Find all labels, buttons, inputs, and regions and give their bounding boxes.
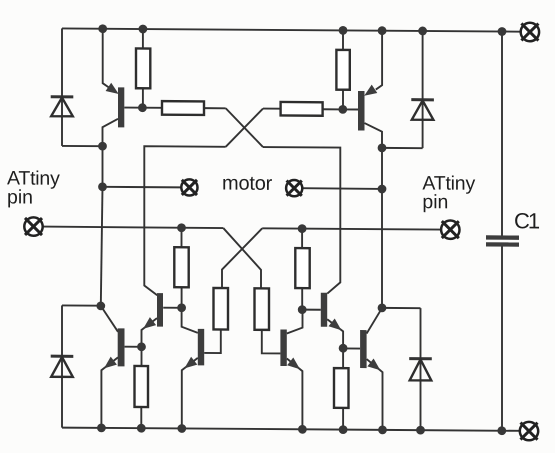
terminal left ATtiny pin [24, 217, 42, 236]
node C Q6 base [298, 305, 307, 314]
wire Q2 base [343, 108, 358, 110]
transistor Q1 (top-left PNP) [118, 87, 124, 127]
wire rail to C1 top [501, 32, 503, 236]
wire Q5 base [163, 307, 181, 309]
resistor R2 (left PNP base, horizontal) [162, 101, 204, 115]
svg-text:pin: pin [422, 191, 448, 213]
wire Q1 base [124, 107, 143, 109]
node rail-C1 [498, 27, 507, 36]
wire R7 bottom to Q7 base [204, 329, 221, 353]
wire crossover to R3 [263, 108, 281, 110]
wire rail drop to D2 [422, 31, 424, 148]
wire R2 to crossover [204, 107, 226, 109]
resistor R10 (right bleed) [334, 368, 349, 408]
diode D4 (bottom-right freewheel) [409, 357, 432, 360]
wire C1 bottom to ground rail [501, 247, 503, 431]
terminal supply top-right [521, 23, 539, 42]
node Q1 collector-D1 [98, 142, 107, 151]
wire left ATtiny pin [43, 227, 223, 228]
terminal motor left [181, 179, 197, 195]
wire R4 bottom to Q2 base node [342, 89, 344, 109]
transistor Q7 (left interlock NPN) [198, 329, 204, 366]
wire crossover diagonal upper-right to lower-left [226, 108, 263, 147]
wire right pin crossover diagonal [222, 228, 262, 288]
node right pin-R9 [298, 224, 307, 233]
transistor Q6 (right driver NPN) [321, 293, 327, 327]
resistor R1 (left PNP base pull-up) [136, 48, 150, 88]
wire top supply rail [62, 28, 521, 31]
node A Q5 base [177, 303, 186, 312]
resistor R4 (right PNP base pull-up) [336, 50, 349, 90]
node rail-Q1 emitter [98, 24, 107, 33]
wire Q3 emitter to ground rail [101, 357, 118, 428]
node gnd R10 [339, 425, 348, 434]
svg-text:C1: C1 [514, 208, 540, 233]
wire right motor column [381, 148, 383, 308]
wire Q5 emitter to node B [142, 318, 158, 347]
node Q1 base [138, 103, 147, 112]
resistor R6 (left bleed) [135, 366, 149, 407]
terminal right ATtiny pin [441, 220, 459, 239]
node B Q3 base [137, 342, 146, 351]
wire left rail drop to D1 [61, 28, 63, 146]
wire Q8 emitter to ground rail [287, 359, 303, 430]
wire left pin to R5 top [181, 228, 183, 248]
node left pin-R5 [177, 223, 186, 232]
node rail-R4 [339, 26, 348, 35]
node gnd Q8 emitter [298, 425, 307, 434]
wire Q3 base from node B [125, 346, 142, 348]
node gnd Q3 emitter [97, 423, 106, 432]
wire Q4 base from node D [343, 347, 360, 349]
wire R9 bottom to node C [301, 288, 303, 310]
node gnd Q7 emitter [177, 424, 186, 433]
wire left pin crossover diagonal [223, 228, 261, 288]
node rail-R1 [139, 25, 148, 34]
node left motor-D3 [96, 301, 105, 310]
wire Q3 collector to left motor node [101, 306, 118, 332]
wire Q6 base [302, 309, 321, 311]
wire crossover to right down-column [263, 147, 340, 294]
wire R10 bottom to ground rail [342, 408, 344, 430]
node right motor-D4 [378, 303, 387, 312]
resistor R5 (left pin series) [174, 247, 188, 287]
wire node D to R10 top [342, 348, 344, 368]
node gnd Q4 emitter [378, 425, 387, 434]
svg-text:motor: motor [222, 173, 273, 195]
wire R1 bottom to Q1 base node [142, 88, 144, 108]
transistor Q5 (left driver NPN) [157, 293, 163, 327]
resistor R7 (left interlock base) [214, 288, 229, 330]
node right motor tap [378, 185, 387, 194]
wire crossover diagonal upper-left to lower-right [226, 108, 263, 147]
wire D4 column [420, 308, 422, 430]
resistor R9 (right pin series) [295, 248, 309, 288]
node gnd R6 [137, 424, 146, 433]
resistor R3 (right PNP base, horizontal) [281, 102, 323, 116]
diode D1 (top-left freewheel) [51, 95, 74, 98]
wire D3 column [61, 305, 63, 427]
wire right ATtiny pin [262, 228, 441, 229]
capacitor C1 plates [486, 235, 519, 240]
transistor Q2 (top-right PNP) [358, 91, 365, 131]
wire D4 top link [382, 307, 421, 309]
transistor Q8 (right interlock NPN) [280, 329, 286, 366]
svg-text:pin: pin [7, 186, 33, 208]
wire Q7 collector to node A [182, 308, 198, 333]
wire Q2 collector to right motor column [365, 123, 383, 148]
transistor Q3 (bottom-left output NPN) [118, 328, 125, 366]
wire D2 bottom to Q2 collector node [382, 147, 423, 149]
wire Q1 collector to left motor column [103, 119, 119, 187]
node left motor tap [98, 182, 107, 191]
wire R3 to Q2 base node [323, 108, 343, 110]
wire rail to R4 top [342, 30, 344, 50]
wire node B to R6 top [141, 347, 143, 366]
wire Q1 emitter from rail [103, 28, 111, 89]
terminal motor right [286, 180, 302, 196]
node rail-D2 [418, 27, 427, 36]
wire Q4 collector to right motor node [367, 308, 382, 334]
wire Q6 emitter to node D [327, 319, 343, 348]
node gnd D4 [416, 426, 425, 435]
node Q2 base [338, 105, 347, 114]
node D Q4 base [339, 344, 348, 353]
wire bottom ground rail [62, 428, 520, 431]
wire R8 bottom to Q8 base [262, 330, 281, 354]
wire left motor column lower [101, 187, 103, 306]
diode D3 (bottom-left freewheel) [51, 355, 74, 358]
wire Q8 collector to node C [287, 310, 303, 334]
wire left motor stub [103, 186, 182, 189]
wire R6 bottom to ground rail [140, 407, 142, 428]
wire D3 top link [62, 304, 101, 306]
terminal ground bottom-right [520, 422, 538, 441]
wire Q2 emitter from rail [376, 30, 382, 90]
node rail-Q2 emitter [378, 26, 387, 35]
transistor Q4 (bottom-right output NPN) [360, 330, 367, 368]
wire right motor stub [302, 187, 382, 190]
wire Q1 base node to R2 [142, 107, 162, 109]
wire R5 bottom to node A [181, 287, 183, 308]
wire right pin to R9 top [301, 229, 303, 249]
diode D2 (top-right freewheel) [411, 98, 434, 101]
wire rail to R1 top [142, 29, 144, 49]
node gnd C1 [497, 426, 506, 435]
wire Q4 emitter to ground rail [367, 359, 383, 430]
node Q2 collector-D2 [378, 143, 387, 152]
wire Q7 emitter to ground rail [182, 358, 198, 429]
resistor R8 (right interlock base) [255, 288, 270, 330]
wire crossover to left down-column [144, 146, 225, 296]
wire D1 bottom to left motor node [62, 145, 103, 147]
